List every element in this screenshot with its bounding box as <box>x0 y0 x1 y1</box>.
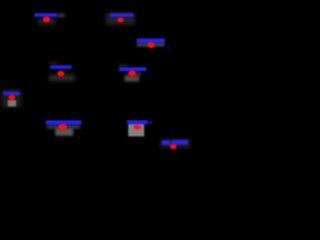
group 3 gray bar <box>137 43 165 47</box>
atom O4 <box>57 71 64 77</box>
group 4 gray blob <box>49 75 75 81</box>
group 7 gray box <box>55 128 73 136</box>
group 8 gray box <box>128 124 144 137</box>
group 1 gray halo <box>38 19 56 25</box>
atom label N3 <box>137 39 165 43</box>
group 1 gray right extension <box>57 14 65 18</box>
stray blue dot near N3 <box>166 46 170 49</box>
group 8 blue tail <box>148 122 153 124</box>
atom O7 <box>58 124 67 130</box>
atom label N7 <box>46 120 82 124</box>
group 6 gray box <box>8 100 16 106</box>
group 6 dark halo <box>2 90 22 108</box>
atom label N4 <box>50 65 71 69</box>
atom O6 <box>9 95 15 101</box>
group 5 gray blob above <box>119 64 129 67</box>
atom label N9a <box>162 140 170 144</box>
atom O9 <box>170 143 177 149</box>
atom O1 <box>43 16 50 22</box>
atom label N1 <box>35 13 58 17</box>
atom O3 <box>148 42 155 48</box>
group 5 gray band under bar <box>127 72 141 76</box>
group 9 gray haze <box>160 139 190 148</box>
atom O8 <box>133 125 141 130</box>
atom label N9b <box>172 140 189 144</box>
group 7 gray band under bar <box>47 125 80 130</box>
atom O2 <box>117 18 123 23</box>
atom label N5 <box>119 67 146 71</box>
atom label N2 <box>110 13 133 16</box>
atom label N6 <box>4 92 20 96</box>
group 2 gray halo <box>106 13 135 25</box>
atom O5 <box>129 70 136 76</box>
group 4 dark red smudge <box>49 62 58 65</box>
atom label N8 <box>127 120 148 124</box>
group 5 gray box <box>125 75 140 81</box>
